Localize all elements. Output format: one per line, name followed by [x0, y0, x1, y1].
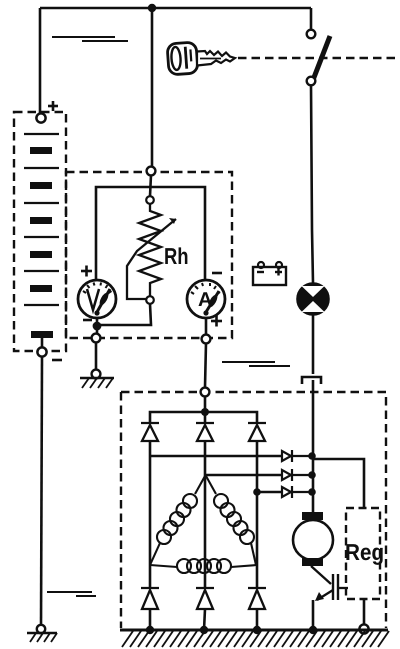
wire top horizontal bus	[40, 7, 311, 10]
wire V to ground terminal	[96, 318, 99, 333]
wire left leg stub between diodes	[149, 565, 152, 588]
ammeter A1	[187, 280, 225, 318]
label V minus	[83, 319, 92, 322]
lamp L1	[298, 284, 329, 315]
transistor Q1 collector	[311, 566, 331, 584]
switch S1 blade	[313, 36, 330, 80]
wire diode bus	[150, 412, 257, 423]
meter dashed box	[66, 172, 232, 338]
rheostat Rh bottom terminal	[146, 296, 154, 304]
wire battery to ground	[41, 357, 42, 627]
label minus	[52, 359, 62, 362]
switch S1 bottom contact	[307, 77, 316, 86]
wire to meter ground	[95, 342, 98, 369]
node junction at top	[148, 4, 156, 12]
rheostat Rh top terminal	[146, 196, 154, 204]
diode D1	[141, 423, 159, 441]
battery + terminal	[36, 113, 45, 122]
node B+ terminal	[201, 388, 210, 397]
wire lamp to connector	[312, 315, 315, 374]
voltmeter V1	[78, 280, 116, 318]
rheostat Rh zigzag	[139, 204, 161, 296]
diode D4 field	[282, 450, 312, 462]
bottom coil	[150, 565, 177, 567]
left side coil	[195, 476, 205, 494]
stator winding delta	[150, 476, 257, 573]
label Reg	[346, 544, 359, 560]
wire phase tap 1	[150, 455, 281, 458]
wire diode legs to ground	[149, 609, 152, 630]
wire junction to rheostat top	[150, 175, 151, 196]
key blade slot	[200, 58, 221, 60]
node on box edge	[92, 334, 101, 343]
wire field diodes to regulator	[312, 459, 364, 508]
battery B1 dashed box	[14, 112, 66, 351]
diode D8	[196, 588, 214, 609]
wire emitter to ground	[312, 600, 315, 630]
label A minus	[212, 272, 222, 275]
wire mid phase leg	[204, 441, 207, 476]
wire to switch	[310, 8, 313, 30]
label A plus	[211, 316, 222, 327]
battery icon small	[253, 262, 286, 285]
wire center vertical to meter box	[151, 8, 154, 168]
wire right phase leg	[256, 441, 259, 565]
label Rh	[165, 248, 177, 264]
node V minus dot	[93, 322, 102, 331]
ground bar hatching	[122, 631, 389, 647]
wire cell stub	[41, 338, 44, 347]
wire phase tap 2	[205, 474, 281, 477]
battery - terminal	[37, 347, 46, 356]
node ground dots	[146, 626, 154, 634]
wire phase tap 3	[257, 491, 281, 494]
wire mid leg lower	[204, 476, 207, 587]
transistor Q1 base bars	[332, 574, 334, 600]
node field diode dots	[308, 452, 316, 460]
node tap3 dot	[253, 488, 261, 496]
node regulator ground open	[359, 624, 368, 633]
dashed actuation line key to switch	[238, 57, 398, 60]
diode D5 field	[282, 469, 312, 481]
right side coil	[206, 476, 216, 494]
ground battery	[27, 625, 57, 642]
artifact lines mid right	[222, 362, 290, 366]
alternator dashed box	[121, 392, 386, 628]
wire rheostat bottom to V minus	[97, 304, 151, 325]
wire A to alternator	[205, 343, 206, 387]
connector plug	[302, 377, 321, 384]
node bus dot	[201, 408, 209, 416]
node input junction	[147, 167, 156, 176]
switch S1 top contact	[307, 30, 316, 39]
wire inner rectangle V-A	[96, 187, 205, 281]
label +	[48, 101, 58, 111]
wire regulator to ground	[363, 599, 366, 625]
ground bar	[120, 629, 388, 632]
artifact lines bottom left	[47, 592, 96, 596]
wire B+ to bus	[204, 396, 207, 412]
battery cells	[24, 134, 59, 305]
diode D6 field	[282, 486, 312, 498]
wire connector to field	[312, 380, 315, 512]
wire A to box edge	[205, 318, 208, 334]
diode D2	[196, 423, 214, 441]
key S1 blade	[197, 51, 235, 66]
transistor Q1 emitter	[317, 590, 333, 600]
wire left phase leg	[149, 441, 152, 565]
diode D9	[248, 588, 266, 609]
key S1 head	[167, 42, 198, 75]
rheostat Rh wiper arrow	[127, 219, 176, 299]
wire left vertical to battery +	[39, 8, 42, 113]
wire base to regulator	[338, 587, 348, 589]
artifact lines top left	[52, 37, 128, 41]
field winding rotor	[293, 512, 333, 566]
wire switch to lamp	[311, 85, 313, 283]
regulator Reg dashed box	[346, 508, 380, 599]
diode D7	[141, 588, 159, 609]
label V plus	[81, 266, 92, 277]
node on box edge below A	[202, 335, 211, 344]
diode D3	[248, 423, 266, 441]
ground meter	[80, 370, 114, 388]
